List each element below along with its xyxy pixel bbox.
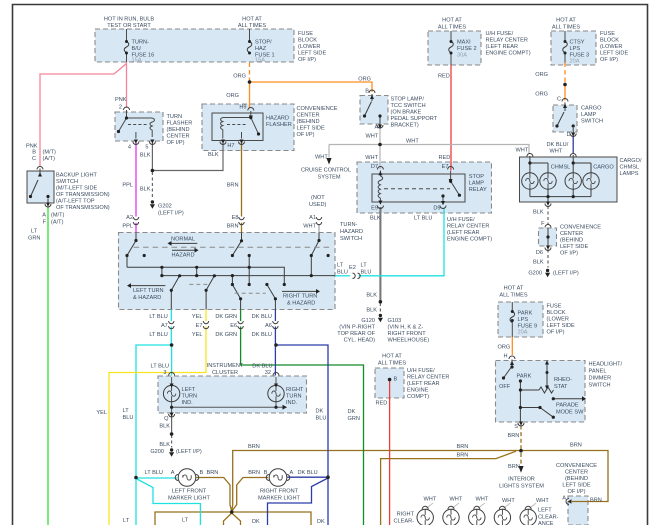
svg-text:HOT IN RUN, BULB: HOT IN RUN, BULB	[104, 17, 155, 23]
svg-text:PNK: PNK	[115, 97, 127, 103]
svg-text:HAZARD: HAZARD	[266, 116, 289, 122]
svg-text:DK BLU/: DK BLU/	[547, 142, 569, 148]
svg-text:LT: LT	[361, 263, 368, 269]
svg-text:LEFT SIDE: LEFT SIDE	[547, 323, 575, 329]
svg-text:(BEHIND: (BEHIND	[297, 119, 320, 125]
svg-text:PARK: PARK	[517, 374, 532, 380]
svg-text:WHT: WHT	[476, 497, 489, 503]
svg-text:LEFT SIDE: LEFT SIDE	[562, 483, 590, 489]
svg-text:CENTER: CENTER	[297, 113, 320, 119]
svg-text:ORG: ORG	[226, 93, 239, 99]
svg-text:PARADE: PARADE	[556, 403, 579, 409]
svg-text:SWITCH: SWITCH	[56, 179, 78, 185]
svg-text:B: B	[200, 470, 204, 476]
svg-text:(BEHIND: (BEHIND	[560, 238, 583, 244]
svg-text:LEFT SIDE: LEFT SIDE	[560, 244, 588, 250]
svg-text:STOP: STOP	[469, 174, 484, 180]
svg-text:(M/T): (M/T)	[51, 213, 64, 219]
svg-text:WHEELHOUSE): WHEELHOUSE)	[388, 338, 430, 344]
svg-text:TURN-: TURN-	[132, 40, 150, 46]
svg-text:CONVENIENCE: CONVENIENCE	[297, 106, 338, 112]
svg-text:PANEL: PANEL	[589, 369, 607, 375]
svg-text:B: B	[32, 150, 36, 156]
svg-text:FUSE: FUSE	[298, 31, 313, 37]
svg-text:C: C	[32, 156, 36, 162]
svg-text:LT BLU: LT BLU	[149, 332, 167, 338]
svg-text:4: 4	[128, 145, 131, 151]
svg-text:LT BLU: LT BLU	[149, 314, 167, 320]
svg-text:A6: A6	[265, 323, 272, 329]
svg-text:BRN: BRN	[570, 443, 582, 449]
svg-text:BLOCK: BLOCK	[600, 38, 619, 44]
svg-text:BLK: BLK	[208, 152, 219, 158]
svg-text:STOP/: STOP/	[255, 40, 272, 46]
svg-text:(LEFT I/P): (LEFT I/P)	[553, 271, 579, 277]
svg-text:A: A	[290, 470, 294, 476]
svg-text:HOT AT: HOT AT	[382, 354, 402, 360]
svg-text:S: S	[514, 424, 518, 430]
svg-text:MODE SW: MODE SW	[556, 410, 584, 416]
svg-text:A: A	[42, 213, 46, 219]
svg-text:E2: E2	[349, 265, 356, 271]
svg-text:(BEHIND: (BEHIND	[565, 476, 588, 482]
svg-text:WHT: WHT	[516, 148, 529, 154]
svg-text:CARGO: CARGO	[593, 165, 614, 171]
svg-text:YEL: YEL	[96, 410, 107, 416]
svg-text:DK BLU: DK BLU	[252, 314, 272, 320]
svg-text:TCC SWITCH: TCC SWITCH	[391, 103, 426, 109]
svg-text:WHT: WHT	[303, 224, 316, 230]
svg-text:LT BLU: LT BLU	[414, 216, 432, 222]
svg-text:D6: D6	[536, 250, 543, 256]
svg-text:ALL TIMES: ALL TIMES	[378, 361, 407, 367]
svg-text:SWITCH: SWITCH	[340, 236, 362, 242]
svg-text:DK GRN: DK GRN	[215, 314, 237, 320]
svg-text:STAT: STAT	[554, 384, 568, 390]
svg-text:5: 5	[145, 145, 148, 151]
svg-text:(LEFT REAR: (LEFT REAR	[447, 230, 480, 236]
svg-text:OF TRANSMISSION): OF TRANSMISSION)	[56, 192, 110, 198]
svg-text:A1: A1	[309, 215, 316, 221]
svg-text:WHT: WHT	[550, 149, 563, 155]
svg-text:WHT: WHT	[366, 134, 379, 140]
svg-text:STOP LAMP/: STOP LAMP/	[391, 97, 425, 103]
svg-text:PARK: PARK	[518, 311, 533, 317]
svg-text:E7: E7	[442, 164, 449, 170]
svg-text:TURN: TURN	[182, 394, 198, 400]
svg-text:CHMSL: CHMSL	[620, 165, 640, 171]
svg-text:BLK: BLK	[370, 216, 381, 222]
svg-text:RED: RED	[376, 401, 388, 407]
svg-text:MAXI: MAXI	[457, 40, 471, 46]
svg-text:(A/T): (A/T)	[43, 156, 56, 162]
svg-text:HOT AT: HOT AT	[242, 17, 262, 23]
svg-text:BRN: BRN	[227, 224, 239, 230]
svg-text:BRN: BRN	[508, 433, 520, 439]
svg-text:ORG: ORG	[535, 72, 548, 78]
svg-text:LT: LT	[123, 408, 130, 414]
svg-text:CARGO/: CARGO/	[620, 158, 643, 164]
svg-text:B: B	[394, 377, 398, 383]
svg-text:(BEHIND: (BEHIND	[167, 127, 190, 133]
svg-text:OF I/P): OF I/P)	[298, 57, 316, 63]
svg-text:BLK: BLK	[140, 153, 151, 159]
svg-text:RELAY: RELAY	[469, 187, 487, 193]
svg-text:A: A	[171, 470, 175, 476]
svg-text:G200: G200	[528, 271, 542, 277]
svg-text:TURN: TURN	[167, 114, 183, 120]
svg-text:RELAY CENTER: RELAY CENTER	[447, 224, 489, 230]
svg-text:FLASHER: FLASHER	[167, 121, 193, 127]
svg-text:LEFT TURN: LEFT TURN	[133, 288, 164, 294]
svg-text:20A: 20A	[570, 59, 580, 65]
svg-text:TOP REAR OF: TOP REAR OF	[337, 331, 375, 337]
svg-text:BRN: BRN	[508, 464, 520, 470]
svg-text:ENGINE COMPT): ENGINE COMPT)	[486, 51, 531, 57]
svg-text:(VIN H, K & Z-: (VIN H, K & Z-	[388, 325, 424, 331]
svg-text:LEFT SIDE: LEFT SIDE	[298, 51, 326, 57]
svg-text:LEFT: LEFT	[538, 508, 552, 514]
svg-text:YEL: YEL	[192, 314, 203, 320]
svg-text:HOT AT: HOT AT	[556, 18, 576, 24]
svg-text:BRACKET): BRACKET)	[391, 123, 419, 129]
svg-text:G103: G103	[388, 318, 402, 324]
svg-text:DK: DK	[348, 409, 356, 415]
svg-text:H: H	[503, 354, 507, 360]
svg-text:LT BLU: LT BLU	[145, 470, 163, 476]
svg-text:OF I/P): OF I/P)	[600, 57, 618, 63]
svg-text:PEDAL SUPPORT: PEDAL SUPPORT	[391, 116, 438, 122]
svg-text:FUSE: FUSE	[600, 31, 615, 37]
svg-text:RIGHT: RIGHT	[397, 512, 415, 518]
svg-text:BLU: BLU	[123, 415, 134, 421]
svg-text:CLEAR-: CLEAR-	[538, 515, 559, 521]
svg-text:DK BLU: DK BLU	[252, 364, 272, 370]
svg-text:BLK: BLK	[366, 308, 377, 314]
svg-text:LAMP: LAMP	[469, 181, 485, 187]
svg-text:LPS: LPS	[570, 46, 581, 52]
svg-text:ENGINE: ENGINE	[407, 388, 429, 394]
svg-text:NORMAL: NORMAL	[171, 237, 195, 243]
svg-text:INTERIOR: INTERIOR	[508, 477, 535, 483]
svg-text:C: C	[557, 97, 561, 103]
svg-text:WHT: WHT	[365, 155, 378, 161]
svg-text:YEL: YEL	[192, 332, 203, 338]
svg-text:RIGHT TURN: RIGHT TURN	[283, 294, 317, 300]
svg-text:(M/T-LEFT SIDE: (M/T-LEFT SIDE	[56, 186, 98, 192]
svg-text:ANCE: ANCE	[538, 521, 554, 525]
svg-text:D: D	[566, 132, 570, 138]
svg-text:BLK: BLK	[159, 424, 170, 430]
svg-text:OFF: OFF	[499, 384, 511, 390]
svg-text:G200: G200	[150, 449, 164, 455]
svg-text:RHEO-: RHEO-	[554, 377, 572, 383]
svg-text:OF TRANSMISSION): OF TRANSMISSION)	[56, 205, 110, 211]
svg-text:WHT: WHT	[536, 498, 549, 504]
svg-text:E6: E6	[230, 323, 237, 329]
svg-text:PPL: PPL	[122, 224, 133, 230]
svg-text:H9: H9	[239, 105, 246, 111]
svg-text:DIMMER: DIMMER	[589, 376, 612, 382]
svg-text:ENGINE COMPT): ENGINE COMPT)	[447, 237, 492, 243]
svg-text:(LEFT REAR: (LEFT REAR	[407, 381, 440, 387]
svg-text:OF I/P): OF I/P)	[560, 251, 578, 257]
svg-text:& HAZARD: & HAZARD	[133, 295, 161, 301]
svg-text:ORG: ORG	[535, 92, 548, 98]
svg-text:CENTER: CENTER	[560, 231, 583, 237]
svg-text:CENTER: CENTER	[167, 134, 190, 140]
svg-text:(VIN P-RIGHT: (VIN P-RIGHT	[339, 325, 375, 331]
svg-text:(LEFT I/P): (LEFT I/P)	[176, 449, 202, 455]
svg-text:15A: 15A	[255, 58, 265, 64]
svg-text:WHT: WHT	[450, 497, 463, 503]
svg-text:RIGHT FRONT: RIGHT FRONT	[260, 489, 299, 495]
svg-text:F: F	[43, 220, 47, 226]
svg-text:DK BLU: DK BLU	[252, 332, 272, 338]
svg-text:H7: H7	[227, 143, 234, 149]
svg-text:TEST OR START: TEST OR START	[107, 23, 151, 29]
svg-text:IND.: IND.	[286, 400, 298, 406]
svg-text:BLOCK: BLOCK	[298, 38, 317, 44]
svg-text:ALL TIMES: ALL TIMES	[499, 293, 528, 299]
svg-text:DK: DK	[317, 519, 325, 525]
svg-text:A: A	[375, 125, 379, 131]
svg-text:BLK: BLK	[140, 187, 151, 193]
svg-text:BLOCK: BLOCK	[547, 310, 566, 316]
svg-text:BLK: BLK	[366, 293, 377, 299]
svg-text:E9: E9	[371, 206, 378, 212]
svg-text:DK BLU: DK BLU	[298, 470, 318, 476]
svg-text:& HAZARD: & HAZARD	[287, 301, 315, 307]
svg-text:LT: LT	[123, 518, 130, 524]
svg-text:2: 2	[119, 105, 122, 111]
svg-text:LAMPS: LAMPS	[620, 171, 639, 177]
svg-text:15A: 15A	[132, 58, 142, 64]
svg-text:BLU: BLU	[361, 270, 372, 276]
svg-text:GRN: GRN	[28, 236, 40, 242]
svg-text:PPL: PPL	[122, 183, 133, 189]
svg-text:OF I/P): OF I/P)	[567, 489, 585, 495]
svg-text:RELAY CENTER: RELAY CENTER	[486, 38, 528, 44]
svg-text:CENTER: CENTER	[565, 470, 588, 476]
svg-text:(M/T): (M/T)	[43, 150, 56, 156]
svg-text:BRN: BRN	[227, 183, 239, 189]
svg-text:FUSE 2: FUSE 2	[457, 46, 477, 52]
svg-text:BACKUP LIGHT: BACKUP LIGHT	[56, 173, 98, 179]
svg-text:BRN: BRN	[207, 470, 219, 476]
svg-text:USED): USED)	[309, 202, 327, 208]
svg-text:GRN: GRN	[348, 416, 360, 422]
svg-text:ALL TIMES: ALL TIMES	[552, 25, 581, 31]
svg-text:30A: 30A	[457, 53, 467, 59]
svg-text:(A/T): (A/T)	[51, 220, 64, 226]
svg-text:ALL TIMES: ALL TIMES	[238, 23, 267, 29]
svg-text:D9: D9	[433, 206, 440, 212]
svg-text:DK GRN: DK GRN	[215, 332, 237, 338]
svg-text:HOT AT: HOT AT	[504, 286, 524, 292]
svg-text:DK: DK	[316, 409, 324, 415]
svg-text:LPS: LPS	[518, 317, 529, 323]
svg-text:CONVENIENCE: CONVENIENCE	[556, 463, 597, 469]
svg-text:LAMP: LAMP	[581, 112, 597, 118]
svg-text:RED: RED	[438, 74, 450, 80]
svg-text:E7: E7	[196, 323, 203, 329]
svg-text:WHT: WHT	[406, 139, 419, 145]
svg-text:A2: A2	[126, 215, 133, 221]
svg-text:A: A	[562, 496, 566, 502]
svg-text:BRN: BRN	[457, 444, 469, 450]
svg-text:(A/T-LEFT TOP: (A/T-LEFT TOP	[56, 199, 95, 205]
svg-text:ALL TIMES: ALL TIMES	[438, 25, 467, 31]
svg-text:MARKER LIGHT: MARKER LIGHT	[258, 496, 301, 502]
svg-text:B: B	[365, 89, 369, 95]
svg-text:RIGHT FRONT: RIGHT FRONT	[388, 331, 427, 337]
svg-text:BLU: BLU	[316, 416, 327, 422]
svg-text:BLU: BLU	[337, 270, 348, 276]
svg-text:TURN: TURN	[286, 394, 302, 400]
svg-text:SYSTEM: SYSTEM	[317, 175, 340, 181]
svg-text:CONVENIENCE: CONVENIENCE	[560, 225, 601, 231]
svg-text:COMPT): COMPT)	[407, 394, 429, 400]
svg-text:A7: A7	[161, 323, 168, 329]
svg-text:TURN-: TURN-	[340, 222, 358, 228]
svg-text:BLK: BLK	[533, 260, 544, 266]
svg-text:BRN: BRN	[248, 470, 260, 476]
svg-text:BRN: BRN	[590, 498, 602, 504]
svg-text:OF I/P): OF I/P)	[167, 140, 185, 146]
svg-text:LT BLU: LT BLU	[151, 364, 169, 370]
svg-text:(LEFT I/P): (LEFT I/P)	[158, 211, 184, 217]
svg-text:(ON BRAKE: (ON BRAKE	[391, 110, 422, 116]
svg-text:LIGHTS SYSTEM: LIGHTS SYSTEM	[499, 484, 544, 490]
svg-text:WHT: WHT	[424, 497, 437, 503]
svg-text:(LEFT REAR: (LEFT REAR	[486, 44, 519, 50]
svg-text:32: 32	[265, 370, 271, 376]
svg-text:D7: D7	[371, 164, 378, 170]
svg-text:ORG: ORG	[233, 74, 246, 80]
svg-text:MARKER LIGHT: MARKER LIGHT	[168, 496, 211, 502]
svg-text:FLASHER: FLASHER	[266, 122, 292, 128]
svg-text:(LOWER: (LOWER	[600, 44, 622, 50]
svg-text:G120: G120	[361, 318, 375, 324]
svg-text:CHMSL: CHMSL	[551, 165, 571, 171]
svg-text:(LOWER: (LOWER	[547, 317, 569, 323]
svg-text:HEADLIGHT/: HEADLIGHT/	[589, 362, 623, 368]
svg-text:RED: RED	[439, 155, 451, 161]
svg-text:3: 3	[163, 370, 166, 376]
svg-text:BLK: BLK	[159, 442, 170, 448]
svg-text:SWITCH: SWITCH	[581, 119, 603, 125]
svg-text:HAZ: HAZ	[255, 46, 267, 52]
svg-text:(LOWER: (LOWER	[298, 44, 320, 50]
svg-text:RIGHT: RIGHT	[286, 387, 304, 393]
svg-text:ORG: ORG	[498, 345, 511, 351]
svg-text:LT: LT	[337, 263, 344, 269]
svg-text:U/H FUSE/: U/H FUSE/	[447, 217, 475, 223]
svg-text:U/H FUSE/: U/H FUSE/	[407, 368, 435, 374]
svg-text:ORG: ORG	[358, 77, 371, 83]
svg-text:20A: 20A	[518, 330, 528, 336]
svg-text:CTSY: CTSY	[570, 40, 585, 46]
svg-text:HAZARD: HAZARD	[340, 229, 363, 235]
svg-text:CYL. HEAD): CYL. HEAD)	[344, 338, 376, 344]
svg-text:LEFT FRONT: LEFT FRONT	[172, 489, 207, 495]
svg-text:HAZARD: HAZARD	[172, 253, 195, 259]
svg-text:RELAY CENTER: RELAY CENTER	[407, 375, 449, 381]
svg-text:U/H FUSE/: U/H FUSE/	[486, 31, 514, 37]
svg-text:CARGO: CARGO	[581, 106, 602, 112]
svg-text:G202: G202	[158, 204, 172, 210]
svg-text:Q: Q	[164, 416, 169, 422]
svg-text:DK: DK	[252, 519, 260, 525]
svg-text:OF I/P): OF I/P)	[297, 132, 315, 138]
svg-text:CRUISE CONTROL: CRUISE CONTROL	[301, 168, 351, 174]
svg-text:CLUSTER: CLUSTER	[212, 370, 238, 376]
svg-text:F: F	[541, 221, 545, 227]
svg-text:SWITCH: SWITCH	[589, 383, 611, 389]
svg-text:E8: E8	[232, 215, 239, 221]
svg-text:B/U: B/U	[132, 46, 141, 52]
svg-text:BRN: BRN	[248, 444, 260, 450]
svg-text:WHT: WHT	[315, 155, 328, 161]
svg-text:LEFT SIDE: LEFT SIDE	[297, 126, 325, 132]
svg-text:OF I/P): OF I/P)	[547, 330, 565, 336]
svg-text:INSTRUMENT: INSTRUMENT	[207, 363, 244, 369]
svg-text:BRN: BRN	[457, 453, 469, 459]
svg-text:FUSE: FUSE	[547, 304, 562, 310]
svg-text:HOT AT: HOT AT	[442, 18, 462, 24]
svg-text:LEFT: LEFT	[182, 387, 196, 393]
svg-text:LEFT SIDE: LEFT SIDE	[600, 51, 628, 57]
svg-text:IND.: IND.	[182, 400, 194, 406]
svg-text:LT: LT	[182, 518, 189, 524]
svg-text:WHT: WHT	[502, 498, 515, 504]
svg-text:(NOT: (NOT	[311, 195, 325, 201]
svg-text:B: B	[264, 470, 268, 476]
svg-text:CLEAR-: CLEAR-	[393, 519, 414, 525]
svg-text:BLK: BLK	[533, 210, 544, 216]
svg-text:LT: LT	[31, 229, 38, 235]
